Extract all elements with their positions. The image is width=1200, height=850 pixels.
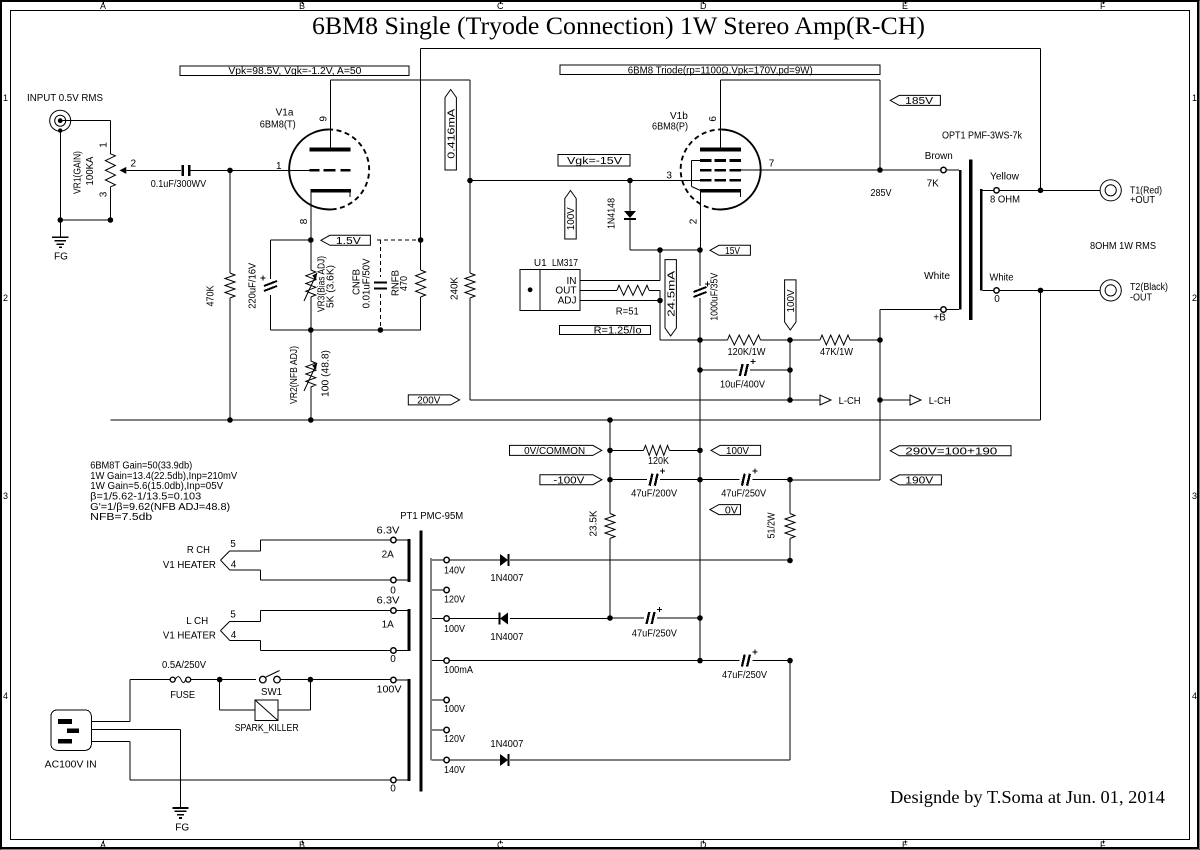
- svg-text:100V: 100V: [444, 704, 465, 715]
- svg-text:8OHM 1W RMS: 8OHM 1W RMS: [1090, 241, 1156, 252]
- svg-text:1N4007: 1N4007: [490, 632, 523, 643]
- svg-text:B: B: [299, 840, 305, 850]
- svg-text:47uF/200V: 47uF/200V: [631, 489, 677, 500]
- offpage arrow L-CH 1: [790, 399, 820, 401]
- V1b grid g3 dashes: [700, 159, 711, 162]
- svg-text:V1 HEATER: V1 HEATER: [163, 630, 216, 641]
- frame column labels top: [103, 2, 105, 5]
- capacitor C2 220uF/16V: [264, 281, 277, 286]
- node x470 junction: [467, 178, 473, 184]
- node LM317 IN junction: [657, 247, 663, 253]
- svg-text:100 (48.8): 100 (48.8): [321, 350, 332, 397]
- flag 15V: [710, 245, 750, 255]
- svg-text:-OUT: -OUT: [1130, 293, 1152, 304]
- svg-text:PT1 PMC-95M: PT1 PMC-95M: [400, 511, 463, 522]
- wire V1b plate to top: [720, 80, 722, 147]
- svg-text:A: A: [100, 840, 106, 850]
- wire NFB top rail y48: [421, 48, 1041, 50]
- diode D2 1N4007: [500, 554, 508, 566]
- svg-text:Vgk=-15V: Vgk=-15V: [567, 156, 622, 167]
- svg-text:VR2(NFB ADJ): VR2(NFB ADJ): [289, 346, 300, 404]
- svg-text:51/2W: 51/2W: [767, 512, 778, 539]
- capacitor C3 1000uF/35V: [694, 287, 707, 292]
- wire x790 rectifier return: [789, 661, 791, 760]
- V1a cathode: [310, 189, 351, 193]
- ground FG input: [59, 220, 61, 237]
- terminal 120V a: [432, 589, 444, 591]
- svg-text:240K: 240K: [450, 277, 461, 300]
- svg-text:6: 6: [708, 116, 719, 122]
- svg-text:5K (3.6K): 5K (3.6K): [326, 265, 337, 308]
- svg-text:1000uF/35V: 1000uF/35V: [710, 273, 721, 321]
- potentiometer VR3(Bias ADJ) 5K: [310, 240, 312, 270]
- node rail x610 junction: [607, 417, 613, 423]
- wire B rail bottom to caps: [790, 479, 880, 481]
- svg-text:D: D: [700, 1, 707, 11]
- svg-text:100mA: 100mA: [444, 665, 473, 676]
- diode D1 1N4148: [629, 181, 631, 212]
- node plate-screen junction: [877, 167, 883, 173]
- fuse F1 0.5A/250V: [170, 677, 175, 682]
- capacitor C5 47uF/200V: [610, 479, 647, 481]
- svg-text:100V: 100V: [726, 446, 749, 457]
- svg-text:23.5K: 23.5K: [589, 510, 600, 536]
- regulator U1 LM317: [520, 270, 540, 311]
- node spark killer right junction: [308, 677, 314, 683]
- flag 100V grid: [565, 191, 576, 240]
- wire LM317 IN: [580, 279, 660, 281]
- flag 290V=100+190: [890, 446, 1011, 456]
- wire jack to VR1 top: [63, 120, 111, 122]
- svg-text:4: 4: [3, 691, 8, 701]
- wire 100mA row y660: [449, 660, 700, 662]
- svg-text:47uF/250V: 47uF/250V: [632, 628, 677, 639]
- potentiometer VR2(NFB ADJ) 100: [310, 330, 312, 361]
- svg-text:47uF/250V: 47uF/250V: [721, 489, 766, 500]
- terminal 6.3V L top: [391, 608, 396, 613]
- node x790 y370 junction: [787, 367, 793, 373]
- svg-text:0.01uF/50V: 0.01uF/50V: [362, 258, 373, 308]
- node RNFB top junction: [418, 237, 424, 243]
- svg-text:B: B: [299, 1, 305, 11]
- wire L heater pin4: [230, 639, 261, 641]
- resistor R4 120K/1W: [700, 339, 728, 341]
- node secondary return junction: [1038, 288, 1044, 294]
- capacitor C7 47uF/250V: [610, 617, 644, 619]
- node spark killer left junction: [217, 677, 223, 683]
- terminal 100V mains: [391, 677, 396, 682]
- svg-text:1: 1: [3, 93, 8, 103]
- svg-text:7: 7: [769, 159, 775, 170]
- svg-text:1N4148: 1N4148: [607, 198, 618, 229]
- wire cathode to C2 branch: [271, 239, 311, 241]
- svg-text:White: White: [924, 271, 950, 282]
- terminal 120V b: [432, 729, 444, 731]
- svg-text:15V: 15V: [725, 246, 740, 257]
- node x700 y480 junction: [697, 477, 703, 483]
- svg-text:E: E: [902, 1, 908, 11]
- flag 185V: [890, 95, 940, 105]
- svg-text:L CH: L CH: [186, 616, 208, 627]
- ground FG mains: [172, 807, 188, 809]
- wire NFB feedback drop: [1040, 49, 1042, 191]
- wire R heater pin4: [230, 569, 261, 571]
- svg-text:6.3V: 6.3V: [377, 526, 400, 537]
- flag 24.5mA current: [665, 260, 676, 336]
- capacitor CNFB 0.01uF/50V dashed branch: [377, 239, 421, 241]
- node R1 bottom junction: [227, 417, 233, 423]
- svg-text:+OUT: +OUT: [1130, 195, 1155, 206]
- resistor R1 470K grid leak: [229, 170, 231, 273]
- flag -100V: [540, 475, 602, 485]
- svg-text:4: 4: [231, 560, 237, 571]
- flag 200V: [408, 395, 459, 405]
- svg-text:5: 5: [230, 610, 236, 621]
- terminal Brown: [941, 167, 946, 172]
- terminal 140V top: [432, 559, 444, 561]
- wire fuse to SW1: [191, 679, 256, 681]
- wire x790 340-400: [789, 340, 791, 400]
- flag 0V/COMMON: [510, 445, 602, 455]
- svg-text:4: 4: [1192, 691, 1197, 701]
- wire x610 rail down: [609, 420, 611, 514]
- svg-text:0.1uF/300WV: 0.1uF/300WV: [151, 179, 207, 190]
- terminal 100V a: [432, 618, 444, 620]
- svg-text:120V: 120V: [444, 734, 465, 745]
- resistor R6 120K: [610, 449, 644, 451]
- svg-text:0.416mA: 0.416mA: [446, 108, 457, 158]
- resistor R8 51/2W: [789, 480, 791, 514]
- svg-text:NFB=7.5db: NFB=7.5db: [90, 512, 153, 523]
- node cathode junction 1.5V: [308, 237, 314, 243]
- svg-text:47K/1W: 47K/1W: [820, 347, 854, 358]
- svg-text:V1a: V1a: [276, 108, 294, 119]
- flag 0V: [710, 505, 741, 515]
- wire VR1 wiper to C1: [126, 169, 181, 171]
- svg-text:1A: 1A: [382, 620, 395, 631]
- frame column labels bottom: [103, 841, 105, 844]
- snubber SPARK_KILLER: [219, 680, 221, 710]
- PT1 core: [419, 531, 422, 792]
- node CNFB bottom junction: [378, 327, 384, 333]
- tube V1b 6BM8(P) envelope: [717, 130, 761, 210]
- wire V1a plate down x470: [469, 80, 471, 181]
- annotation box R=1.25/Io: [560, 326, 651, 335]
- wire +B to B rail: [880, 309, 941, 311]
- wire cathode bottom row: [271, 329, 422, 331]
- svg-text:9: 9: [319, 116, 330, 122]
- V1a grid dashes: [309, 169, 319, 172]
- tube V1a 6BM8(T) envelope: [289, 130, 333, 210]
- svg-text:AC100V IN: AC100V IN: [45, 760, 97, 771]
- svg-text:L-CH: L-CH: [839, 396, 861, 407]
- svg-text:190V: 190V: [905, 476, 933, 487]
- flag 100V down at x790: [785, 280, 796, 330]
- svg-text:Designde by T.Soma at Jun. 01,: Designde by T.Soma at Jun. 01, 2014: [890, 787, 1165, 807]
- svg-text:120K/1W: 120K/1W: [728, 347, 767, 358]
- capacitor C6 47uF/250V: [700, 479, 739, 481]
- wire C1 to V1a grid: [189, 169, 230, 171]
- svg-text:140V: 140V: [444, 566, 465, 577]
- V1b g3 tie to cathode: [692, 159, 700, 161]
- flag 0.416mA current: [445, 90, 456, 171]
- node y340 x880 junction: [877, 337, 883, 343]
- capacitor C4 10uF/400V: [700, 369, 738, 371]
- svg-text:2: 2: [131, 159, 137, 170]
- wire 240K bottom to 200V row: [470, 399, 790, 401]
- node y618 x700 junction: [697, 615, 703, 621]
- terminal 0 R bottom: [391, 577, 396, 582]
- svg-text:185V: 185V: [905, 96, 933, 107]
- node x610 y480 junction: [607, 477, 613, 483]
- PT1 primary heater winding R: [407, 539, 410, 582]
- svg-text:0: 0: [390, 654, 396, 665]
- capacitor C8 47uF/250V: [700, 660, 739, 662]
- svg-text:6.3V: 6.3V: [377, 596, 400, 607]
- wire secondary return to T2: [999, 289, 1100, 291]
- svg-text:T2(Black): T2(Black): [1130, 282, 1168, 293]
- switch SW1: [260, 676, 267, 683]
- wire 100V row y618: [449, 618, 500, 620]
- flag 190V: [890, 475, 941, 485]
- node x700 y370 junction: [697, 367, 703, 373]
- node cathode bottom junction: [308, 327, 314, 333]
- flag 1.5V: [321, 235, 371, 245]
- OPT1 secondary winding bar: [980, 189, 983, 291]
- svg-text:140V: 140V: [444, 765, 465, 776]
- V1b grid g1 dashes: [700, 179, 711, 182]
- svg-text:24.5mA: 24.5mA: [666, 270, 677, 316]
- svg-text:470: 470: [399, 276, 410, 291]
- wire bias row y250: [630, 249, 700, 251]
- svg-text:3: 3: [3, 491, 8, 501]
- svg-text:6BM8 Triode(rp=1100Ω,Vpk=170V,: 6BM8 Triode(rp=1100Ω,Vpk=170V,pd=9W): [628, 65, 813, 76]
- wire return to ground rail: [1040, 290, 1042, 420]
- wire V1b plate rail to OPT: [721, 79, 881, 81]
- svg-text:1N4007: 1N4007: [490, 739, 523, 750]
- node VR1 bottom junction: [108, 217, 114, 223]
- terminal Yellow 8OHM: [994, 188, 999, 193]
- svg-text:6BM8 Single (Tryode Connection: 6BM8 Single (Tryode Connection) 1W Stere…: [312, 13, 925, 40]
- svg-text:6BM8(P): 6BM8(P): [652, 122, 688, 133]
- wire R heater pin5: [230, 550, 261, 552]
- flag 100V right: [711, 445, 761, 455]
- OPT1 primary winding bar: [946, 169, 959, 171]
- terminal 100V b: [432, 699, 444, 701]
- diode D4 1N4007: [500, 754, 508, 766]
- svg-text:3: 3: [666, 171, 672, 182]
- svg-text:L-CH: L-CH: [929, 396, 951, 407]
- OPT1 core: [969, 160, 972, 321]
- svg-text:1: 1: [99, 142, 110, 148]
- potentiometer VR1 100KA: [109, 121, 111, 154]
- offpage arrow L-CH 2: [880, 399, 910, 401]
- PT1 primary mains winding: [407, 679, 410, 781]
- svg-text:4: 4: [231, 630, 237, 641]
- terminal White 0: [994, 288, 999, 293]
- svg-text:FUSE: FUSE: [170, 690, 195, 701]
- svg-text:OPT1 PMF-3WS-7k: OPT1 PMF-3WS-7k: [942, 131, 1023, 142]
- node x700 y450 junction: [697, 448, 703, 454]
- PT1 secondary bar: [430, 558, 432, 761]
- svg-text:U1: U1: [534, 258, 547, 269]
- wire ground rail to pot bottom: [60, 219, 110, 221]
- terminal White +B: [941, 307, 946, 312]
- wire ADJ node down to heater bias: [659, 301, 661, 341]
- node y560 x790 junction: [787, 558, 793, 564]
- svg-text:2A: 2A: [382, 550, 395, 561]
- connector T1(Red) +OUT: [1100, 180, 1121, 201]
- terminal 100mA center: [432, 660, 444, 662]
- svg-text:FG: FG: [54, 252, 68, 263]
- svg-text:C: C: [497, 840, 504, 850]
- svg-text:1: 1: [1192, 93, 1197, 103]
- svg-text:R=51: R=51: [616, 307, 639, 318]
- node grid junction: [227, 168, 233, 174]
- svg-text:E: E: [902, 840, 908, 850]
- svg-text:R CH: R CH: [187, 545, 210, 556]
- diode D3 1N4007 reversed: [500, 613, 508, 625]
- svg-text:10uF/400V: 10uF/400V: [720, 380, 765, 391]
- svg-text:8 OHM: 8 OHM: [990, 195, 1020, 206]
- svg-text:V1b: V1b: [670, 111, 688, 122]
- resistor R3 R=51: [617, 285, 649, 295]
- svg-text:ADJ: ADJ: [558, 296, 577, 307]
- wire x700 y450-660: [699, 450, 701, 660]
- svg-text:100V: 100V: [566, 207, 577, 230]
- wire 140V bottom row y760: [449, 759, 500, 761]
- wire SW1 to PT1: [280, 679, 390, 681]
- wire AC earth to FG: [91, 728, 180, 730]
- wire V1a plate rail y80: [331, 79, 471, 81]
- svg-text:VR1(GAIN): VR1(GAIN): [73, 151, 84, 194]
- svg-text:2: 2: [689, 218, 700, 224]
- svg-text:100V: 100V: [786, 289, 797, 312]
- node y660 x790 junction: [787, 658, 793, 664]
- node VR2 bottom junction: [308, 417, 314, 423]
- svg-text:8: 8: [299, 218, 310, 224]
- svg-text:47uF/250V: 47uF/250V: [722, 670, 767, 681]
- V1b grid g2 dashes: [700, 169, 711, 172]
- node y340 x790 junction: [787, 337, 793, 343]
- wire NFB line from top: [420, 49, 422, 241]
- connector AC plug: [51, 710, 91, 750]
- wire main ground rail y420: [110, 419, 1040, 421]
- wire to V1b grid y180: [470, 180, 700, 182]
- svg-text:100V: 100V: [377, 685, 402, 696]
- svg-text:+B: +B: [933, 313, 946, 324]
- node pin2 bias junction: [697, 247, 703, 253]
- terminal 0 L bottom: [391, 648, 396, 653]
- V1b plate: [700, 147, 741, 151]
- connector T2(Black) -OUT: [1100, 280, 1121, 301]
- PT1 primary heater winding L: [407, 609, 410, 651]
- svg-text:LM317: LM317: [552, 258, 578, 269]
- svg-text:120K: 120K: [648, 456, 669, 467]
- wire jack sleeve down: [59, 132, 61, 220]
- svg-text:Vpk=98.5V, Vgk=-1.2V, A=50: Vpk=98.5V, Vgk=-1.2V, A=50: [228, 66, 361, 77]
- svg-text:Yellow: Yellow: [990, 171, 1020, 182]
- node x700 y340 junction: [697, 337, 703, 343]
- svg-text:3: 3: [99, 191, 110, 197]
- terminal 0 mains: [391, 777, 396, 782]
- svg-text:285V: 285V: [871, 188, 892, 199]
- terminal 140V bottom: [432, 759, 444, 761]
- svg-text:120V: 120V: [444, 595, 465, 606]
- svg-text:0V: 0V: [725, 505, 738, 516]
- annotation box Vgk=-15V: [558, 155, 630, 167]
- node jack ground junction: [58, 217, 64, 223]
- node L-CH tap 2: [877, 397, 883, 403]
- resistor R5 47K/1W: [790, 339, 820, 341]
- svg-text:V1 HEATER: V1 HEATER: [163, 560, 216, 571]
- node y660 x700 junction: [697, 658, 703, 664]
- svg-text:White: White: [990, 273, 1014, 284]
- svg-text:INPUT 0.5V RMS: INPUT 0.5V RMS: [27, 93, 103, 104]
- svg-text:7K: 7K: [927, 178, 940, 189]
- V1b cathode: [700, 189, 741, 193]
- svg-text:FG: FG: [175, 823, 189, 834]
- svg-text:100KA: 100KA: [85, 156, 96, 185]
- node V1b grid junction: [627, 178, 633, 184]
- svg-text:-100V: -100V: [553, 476, 584, 487]
- svg-text:1N4007: 1N4007: [490, 573, 523, 584]
- svg-text:0V/COMMON: 0V/COMMON: [524, 446, 585, 457]
- V1a plate: [309, 147, 350, 151]
- svg-text:2: 2: [3, 293, 8, 303]
- svg-text:F: F: [1100, 840, 1106, 850]
- resistor R2 240K: [469, 181, 471, 274]
- svg-text:1: 1: [276, 161, 282, 172]
- resistor RNFB 470: [420, 240, 422, 270]
- svg-text:R=1.25/Io: R=1.25/Io: [594, 325, 642, 336]
- svg-text:6BM8(T): 6BM8(T): [260, 120, 296, 131]
- wire AC hot to fuse: [91, 721, 130, 723]
- connector J input RCA jack: [50, 110, 71, 131]
- terminal 6.3V R top: [391, 537, 396, 542]
- svg-text:220uF/16V: 220uF/16V: [248, 263, 259, 309]
- pin 8 V1a cathode lead: [310, 192, 312, 240]
- node y618 x610 junction: [607, 615, 613, 621]
- capacitor C1 0.1uF/300WV: [182, 165, 185, 176]
- svg-text:SPARK_KILLER: SPARK_KILLER: [235, 723, 299, 734]
- node x610 y450 junction: [607, 448, 613, 454]
- wire LM317 ADJ: [580, 300, 660, 302]
- svg-text:0: 0: [390, 784, 396, 795]
- wire 140V row y560: [449, 559, 500, 561]
- node NFB takeoff junction: [1038, 188, 1044, 194]
- svg-text:200V: 200V: [417, 396, 440, 407]
- node x790 y480 junction: [787, 477, 793, 483]
- node OUT-ADJ junction: [657, 298, 663, 304]
- svg-text:0: 0: [994, 294, 1000, 305]
- wire V1a plate to top rail: [330, 80, 332, 147]
- resistor R7 23.5K: [609, 480, 611, 514]
- svg-text:290V=100+190: 290V=100+190: [905, 447, 998, 458]
- svg-text:470K: 470K: [206, 285, 217, 306]
- svg-text:C: C: [497, 1, 504, 11]
- svg-text:5: 5: [230, 539, 236, 550]
- svg-text:0.5A/250V: 0.5A/250V: [162, 660, 206, 671]
- svg-text:F: F: [1100, 1, 1106, 11]
- svg-text:100V: 100V: [444, 624, 465, 635]
- wire secondary to T1: [999, 189, 1100, 191]
- svg-text:Brown: Brown: [925, 151, 953, 162]
- pin 7 V1b screen wire: [741, 169, 941, 171]
- svg-text:1.5V: 1.5V: [336, 236, 361, 247]
- node L-CH tap 1: [787, 397, 793, 403]
- svg-text:A: A: [100, 1, 106, 11]
